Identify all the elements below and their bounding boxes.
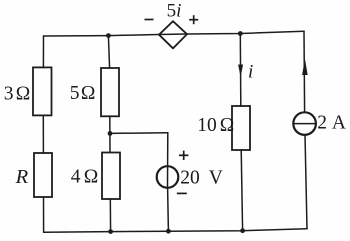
resistor 4ohm (102, 153, 120, 200)
wire branch2 middle (109, 116, 111, 152)
bar of current source (293, 123, 316, 125)
resistor 3ohm (33, 67, 52, 115)
dependent source U1 diamond 5i (159, 21, 187, 48)
wire right vertical upper (303, 31, 306, 112)
junction top 10ohm (238, 31, 243, 36)
wire top-right segment (187, 31, 304, 34)
wire 10ohm branch upper (239, 34, 242, 107)
resistor R (34, 153, 52, 197)
wire 20V branch lower (167, 188, 170, 232)
wire through 20V circle (167, 166, 169, 188)
wire left vertical middle (42, 115, 44, 153)
current arrow upward on 2A branch (302, 59, 308, 75)
junction bottom 10ohm (240, 228, 245, 233)
wire middle horizontal to 20V branch (110, 132, 168, 135)
current arrow i downward on 10ohm branch (238, 65, 243, 78)
resistor 5ohm (101, 68, 119, 116)
voltage source V1 20V circle (157, 166, 179, 188)
wire through dependent source (159, 33, 187, 36)
svg-text:2A: 2A (317, 112, 346, 133)
wire bottom (44, 229, 307, 233)
svg-text:5i: 5i (167, 0, 182, 21)
junction middle (108, 131, 113, 136)
wire branch2 top (108, 36, 109, 69)
wire branch2 bottom (109, 199, 111, 232)
svg-text:3Ω: 3Ω (4, 83, 31, 104)
wire 20V branch upper (167, 133, 169, 167)
svg-text:R: R (15, 166, 29, 188)
minus sign below 20V (177, 192, 187, 194)
plus sign above 20V (179, 151, 188, 160)
wire left vertical lower (43, 197, 45, 233)
resistor 10ohm (232, 106, 250, 150)
wire top-left segment (44, 35, 160, 37)
svg-text:20V: 20V (180, 168, 223, 189)
svg-text:10Ω: 10Ω (197, 115, 234, 136)
junction bottom 4ohm (108, 229, 113, 234)
junction top branch2 (106, 33, 111, 38)
svg-text:4Ω: 4Ω (71, 166, 98, 187)
wire 10ohm branch lower (241, 150, 242, 231)
junction bottom 20V (166, 229, 171, 234)
current source I1 2A circle (293, 112, 316, 135)
minus sign left of diamond (145, 19, 154, 21)
svg-text:i: i (248, 62, 253, 83)
wire left vertical upper (42, 36, 44, 68)
plus sign right of diamond (189, 15, 198, 24)
wire right vertical lower (305, 135, 307, 229)
svg-text:5Ω: 5Ω (70, 83, 96, 104)
